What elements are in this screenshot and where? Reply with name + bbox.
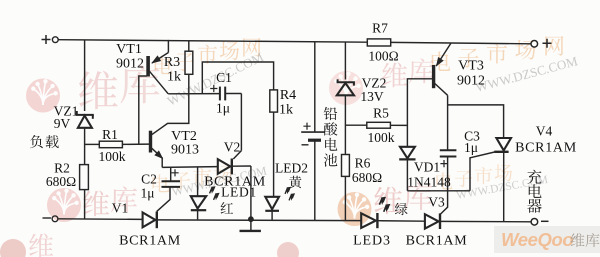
watermark orange chars 电子市场网 top-right	[432, 51, 450, 71]
wire bottom rail segment 2	[157, 219, 361, 222]
battery 铅酸电池	[314, 42, 316, 132]
watermark logo circle top-left	[26, 79, 60, 113]
terminal + top-left	[42, 35, 51, 44]
node junction dot	[249, 217, 254, 222]
svg-text:9013: 9013	[171, 143, 199, 158]
svg-text:100k: 100k	[368, 130, 395, 145]
wire collector node line	[168, 93, 220, 95]
ground	[250, 219, 252, 231]
LED LED1	[197, 167, 199, 196]
svg-text:1μ: 1μ	[464, 140, 478, 155]
charger label 充电器	[527, 170, 541, 184]
svg-text:BCR1AM: BCR1AM	[406, 234, 468, 249]
zener VZ1	[76, 111, 78, 115]
svg-text:VD1: VD1	[414, 160, 440, 175]
terminal + top-right	[531, 41, 538, 48]
svg-text:C1: C1	[216, 70, 232, 85]
load label 负载	[30, 135, 43, 148]
watermark logo circle bottom-left	[47, 188, 81, 222]
watermark gray www.dzsc.com middle	[171, 163, 269, 199]
svg-text:R5: R5	[373, 106, 389, 121]
svg-text:BCR1AM: BCR1AM	[515, 141, 577, 156]
svg-text:V2: V2	[224, 140, 241, 155]
watermark logo circle bottom-middle	[338, 192, 372, 226]
thyristor V2	[218, 159, 230, 174]
thyristor V3	[425, 214, 439, 228]
svg-text:1μ: 1μ	[141, 186, 155, 201]
svg-text:WWW.DZSC.COM: WWW.DZSC.COM	[474, 53, 580, 95]
wire R4 to LED2	[273, 112, 275, 197]
wire R2 to bottom rail	[84, 190, 86, 219]
thyristor V4	[496, 138, 511, 150]
watermark logo circle middle (behind VZ2)	[329, 71, 363, 105]
wire top rail left section	[58, 40, 367, 43]
zener VZ2	[344, 42, 346, 80]
capacitor C1	[219, 87, 221, 101]
wire collector to V4 cathode	[448, 105, 504, 138]
svg-text:9012: 9012	[116, 57, 144, 72]
wire VZ2 to R6	[344, 95, 346, 154]
svg-text:100Ω: 100Ω	[368, 49, 398, 64]
resistor R1	[85, 143, 100, 145]
svg-text:VT3: VT3	[458, 59, 484, 74]
svg-text:V4: V4	[536, 124, 553, 139]
svg-text:R1: R1	[102, 127, 118, 142]
wire gate line VD1/C3/V3/V4	[407, 190, 470, 192]
svg-text:LED3: LED3	[353, 234, 391, 249]
watermark big pink chars 维库 top-left	[79, 71, 118, 110]
wire VT1 base drop	[139, 76, 147, 144]
wire bottom rail segment 1	[58, 218, 143, 221]
wire VZ1 branch from top rail	[84, 40, 86, 111]
terminal bottom-left	[43, 217, 52, 219]
resistor R5	[345, 124, 366, 126]
svg-text:100k: 100k	[99, 149, 126, 164]
wire V2 cathode to ground rail	[250, 166, 252, 219]
svg-text:V1: V1	[112, 201, 129, 216]
watermark gray www.dzsc.com top-middle	[165, 49, 266, 109]
transistor VT2	[149, 131, 151, 152]
wire C1 to V2 gate	[240, 94, 242, 151]
capacitor C3	[440, 149, 457, 151]
watermark pink chars 维库 middle-right	[382, 62, 407, 87]
terminal bottom-right	[531, 219, 538, 226]
wire R6 to bottom rail	[344, 176, 346, 220]
svg-text:V3: V3	[428, 195, 445, 210]
watermark red partial circle bottom-left corner	[0, 239, 26, 257]
svg-text:R4: R4	[280, 88, 296, 103]
watermark orange chars bottom-right trail	[436, 172, 452, 189]
wire emitter line	[162, 166, 218, 169]
wire C2 to V1 gate	[157, 187, 170, 212]
wire R1 to VT2 base	[122, 143, 149, 145]
resistor R6	[342, 155, 350, 177]
resistor R2	[80, 165, 89, 190]
wire V3 gate drop	[440, 191, 448, 215]
watermark big pink chars 维库 bottom-left	[83, 190, 109, 216]
svg-text:680Ω: 680Ω	[352, 170, 382, 185]
wire VT3 base node	[407, 79, 432, 147]
watermark red partial circle bottom edge	[277, 242, 299, 257]
diode VD1	[400, 147, 415, 159]
watermark gray www bottom-right	[455, 174, 549, 202]
watermark pink chars 维库 bottom-middle	[374, 186, 402, 214]
watermark gray www.dzsc.com top-right	[474, 53, 580, 95]
LED LED3	[361, 213, 376, 228]
svg-text:R6: R6	[355, 156, 371, 171]
svg-text:C2: C2	[141, 172, 157, 187]
svg-text:9012: 9012	[457, 74, 485, 89]
svg-text:BCR1AM: BCR1AM	[119, 234, 181, 249]
svg-text:1μ: 1μ	[216, 101, 230, 116]
resistor R4	[270, 90, 278, 112]
svg-text:13V: 13V	[360, 89, 384, 104]
svg-text:1k: 1k	[279, 103, 293, 118]
resistor R3	[188, 41, 190, 52]
watermark orange chars 电子市场网 top-middle	[155, 55, 173, 74]
transistor VT3	[432, 66, 434, 88]
svg-text:VT1: VT1	[116, 42, 142, 57]
svg-text:R7: R7	[372, 21, 388, 36]
svg-text:1k: 1k	[167, 70, 181, 85]
WeeQoo watermark box bottom-right	[494, 226, 600, 253]
watermark orange chars 电子市场 middle	[153, 174, 170, 192]
wire VZ1 to R1/R2 node	[84, 128, 86, 165]
wire V4 gate riser	[470, 152, 495, 191]
LED LED2	[265, 197, 279, 209]
svg-text:680Ω: 680Ω	[46, 174, 76, 189]
svg-text:LED2: LED2	[275, 161, 308, 176]
transistor VT1	[147, 57, 150, 77]
svg-text:1N4148: 1N4148	[407, 175, 451, 190]
svg-text:R3: R3	[164, 55, 180, 70]
thyristor V1	[143, 213, 156, 228]
wire VT3 collector down to C3	[447, 95, 449, 150]
wire to R4 top loop	[202, 62, 273, 94]
wire bottom rail segment 3	[377, 220, 425, 223]
svg-text:WeeQoo: WeeQoo	[501, 229, 573, 250]
svg-text:BCR1AM: BCR1AM	[204, 175, 266, 190]
resistor R7	[367, 39, 390, 46]
capacitor C2	[170, 167, 172, 181]
wire top rail right section	[391, 42, 531, 43]
wire bottom rail segment 4	[440, 220, 531, 222]
svg-text:9V: 9V	[54, 116, 71, 131]
